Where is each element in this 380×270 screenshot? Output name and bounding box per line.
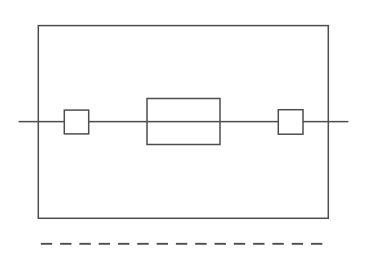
left clamping point — [64, 110, 88, 134]
wire segment between fuse and right clamp — [220, 121, 278, 123]
right clamping point — [278, 110, 303, 135]
dashed marking line — [41, 243, 324, 245]
fuse F1 — [147, 99, 220, 145]
wire segment between left clamp and fuse — [89, 121, 147, 123]
terminal block housing outline — [38, 26, 328, 219]
wire right lead — [303, 121, 348, 123]
wire left lead — [19, 121, 65, 123]
